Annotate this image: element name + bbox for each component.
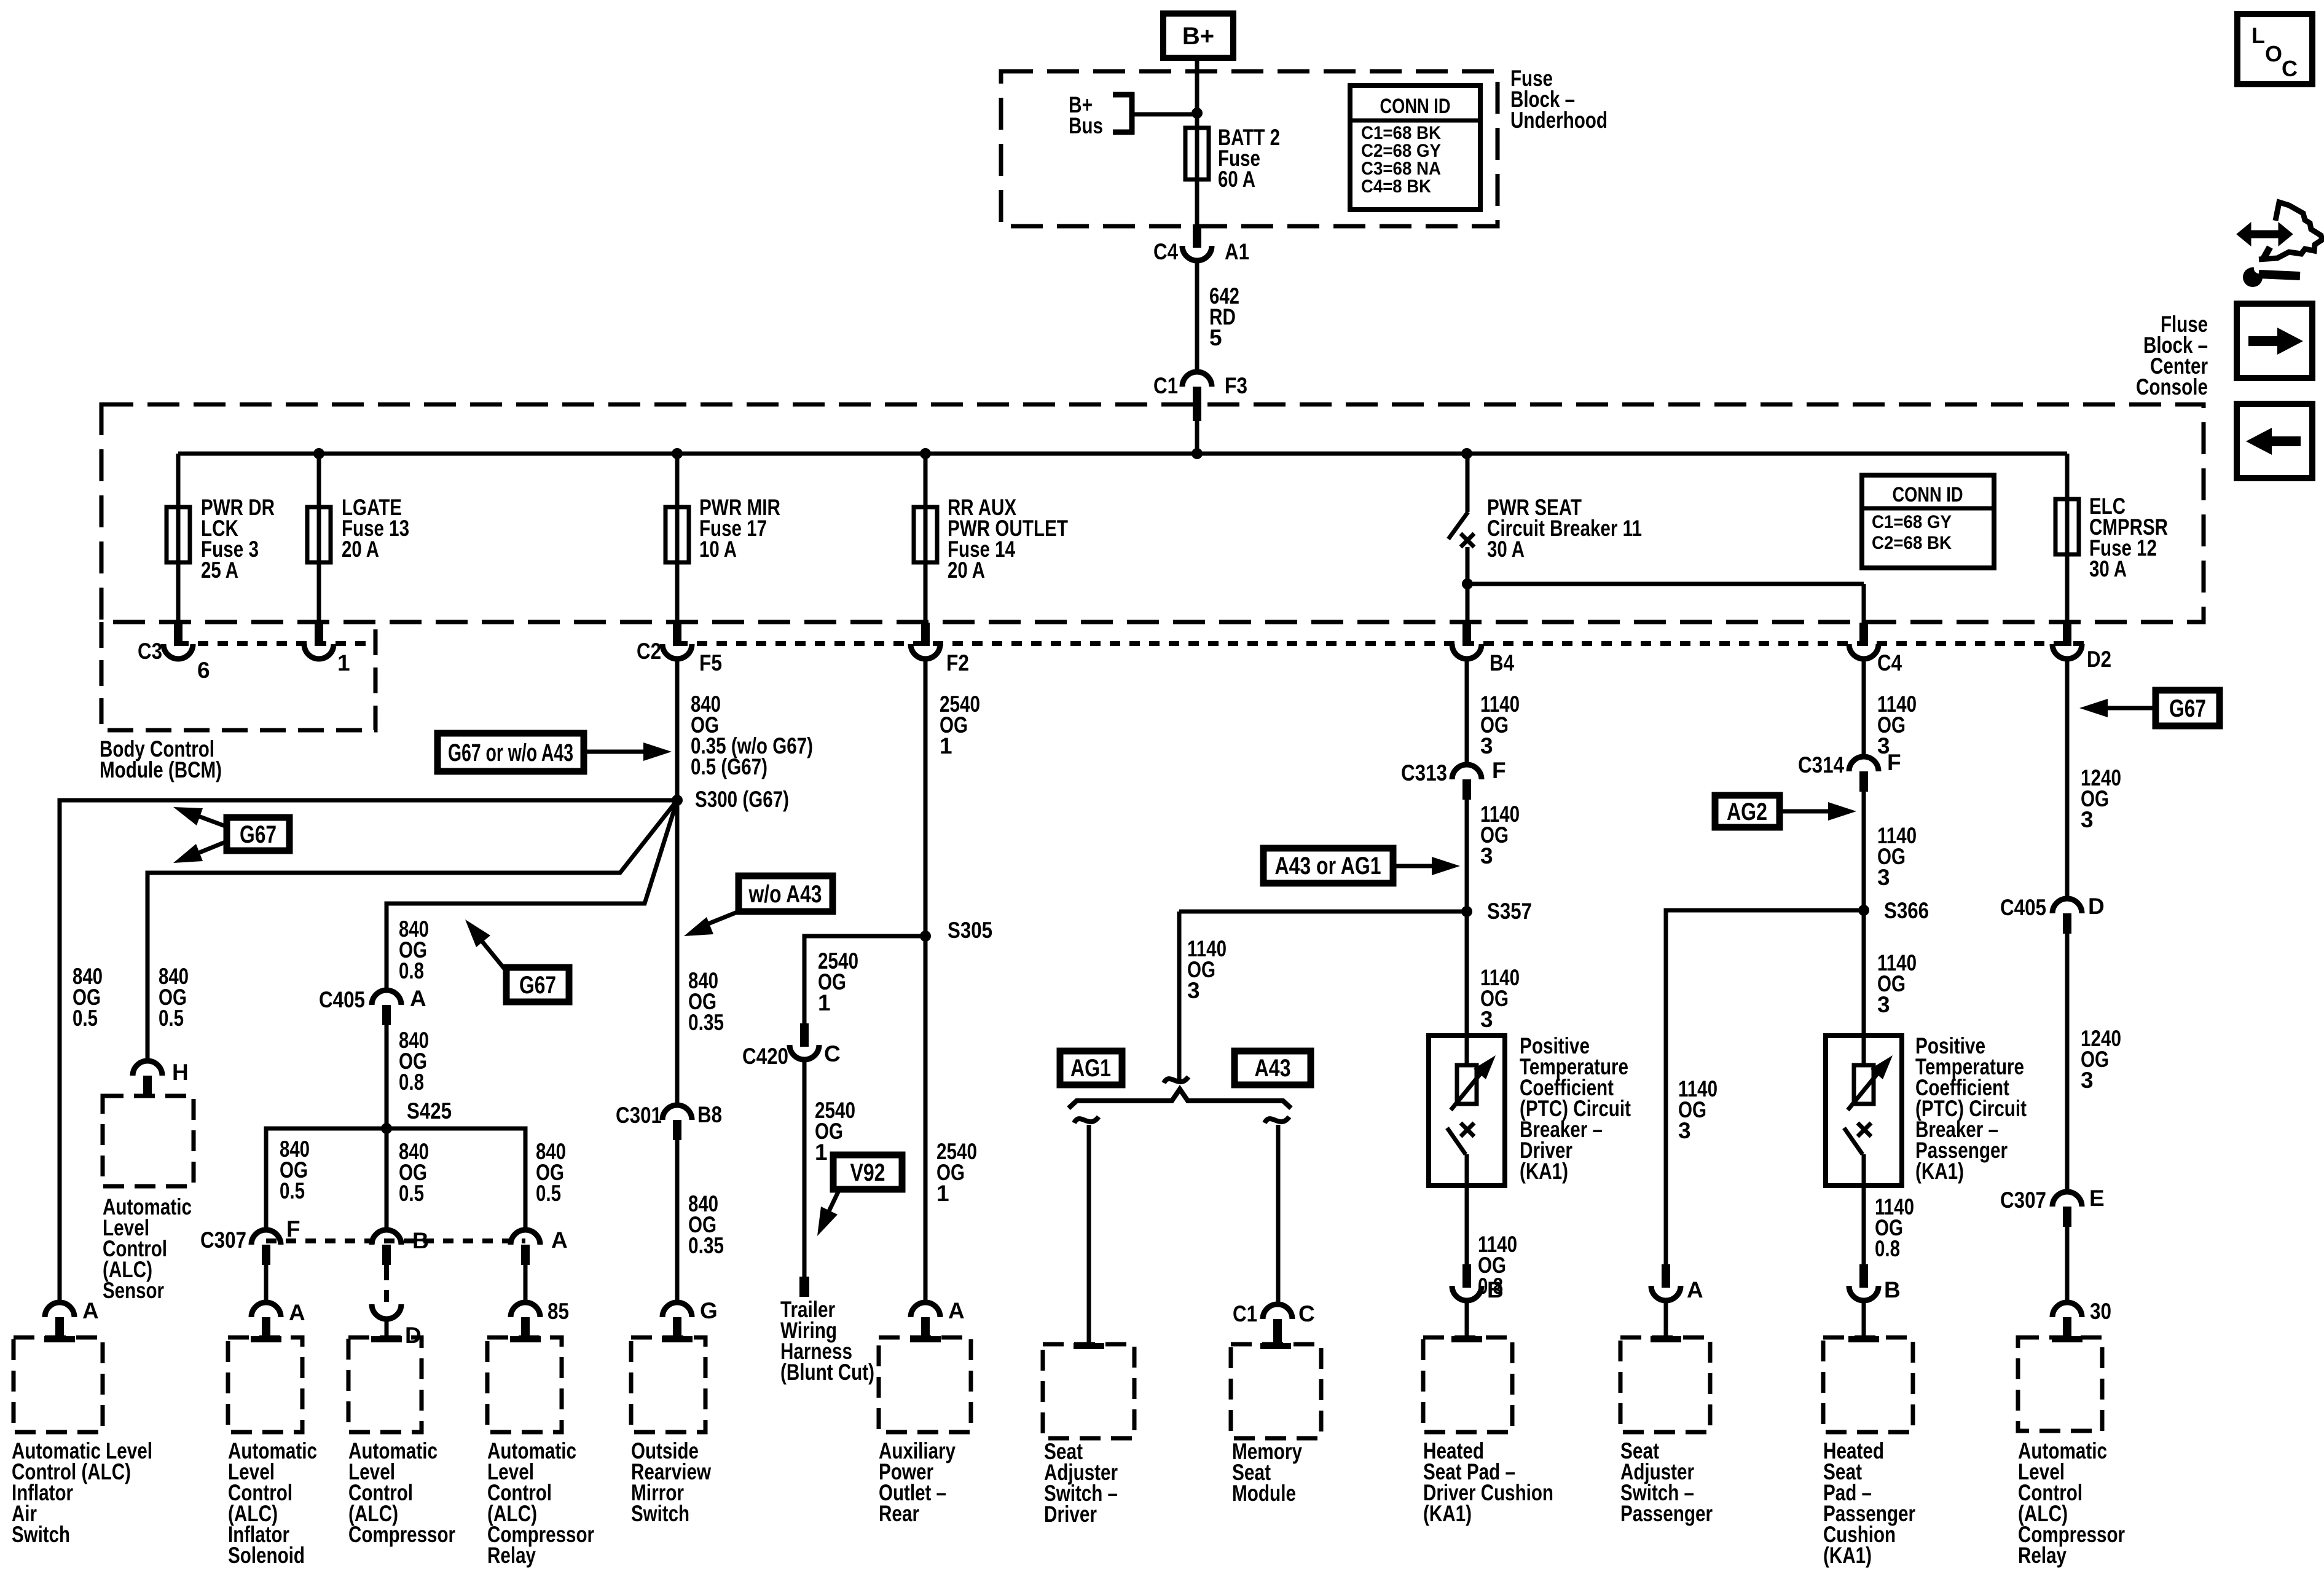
wire 840 OG 0.35 to mirror switch — [675, 1140, 680, 1302]
B+ Bus tap bracket — [1113, 92, 1134, 98]
fuse PWR DR LCK Fuse 3 — [167, 507, 190, 562]
svg-text:Module: Module — [1232, 1481, 1296, 1506]
wire C313 to S357 — [1465, 800, 1469, 1036]
svg-text:G67: G67 — [240, 821, 277, 848]
label 642 RD 5 — [1209, 283, 1239, 350]
component outside rearview mirror switch — [631, 1337, 705, 1432]
wire AG1 to seat adjuster switch driver — [1087, 1125, 1091, 1344]
component memory seat module — [1231, 1344, 1321, 1438]
wire - bus drop to RR AUX fuse — [924, 454, 928, 623]
wire PTC driver to heated seat pad — [1465, 1186, 1469, 1266]
svg-text:0.5: 0.5 — [280, 1178, 305, 1203]
node - bus junction at RR AUX fuse — [920, 448, 931, 459]
label Positive Temperature Coefficient PTC Circuit Breaker Passenger KA1 — [1915, 1033, 2027, 1184]
connector H — [133, 1061, 162, 1076]
connector C405 pin D — [2052, 899, 2082, 913]
svg-text:Module (BCM): Module (BCM) — [100, 757, 222, 782]
node - bus junction at LGATE fuse — [313, 448, 324, 459]
connector B4 — [1462, 623, 1471, 646]
wire 1140 OG to C313 — [1465, 660, 1469, 765]
component automatic level control compressor relay right — [2018, 1337, 2102, 1431]
svg-text:F5: F5 — [699, 650, 722, 675]
svg-text:CONN ID: CONN ID — [1893, 483, 1963, 506]
label box G67 with arrow up-left — [506, 967, 569, 1002]
svg-text:3: 3 — [1877, 865, 1890, 890]
svg-text:0.8: 0.8 — [399, 1069, 424, 1095]
wire - bus drop to PWR DR LCK fuse — [176, 454, 181, 623]
svg-text:Driver: Driver — [1044, 1502, 1097, 1527]
svg-text:3: 3 — [2081, 1068, 2094, 1093]
wire - S366 branch to seat adjuster passenger — [1666, 910, 1863, 1266]
connector C4 seat feed — [1859, 623, 1868, 646]
connector C313 pin F — [1452, 765, 1482, 779]
svg-text:3: 3 — [1480, 843, 1493, 868]
wire 642 RD 5 — [1195, 261, 1199, 372]
svg-text:F3: F3 — [1225, 373, 1247, 398]
component auxiliary power outlet rear — [879, 1337, 971, 1432]
svg-text:Underhood: Underhood — [1510, 108, 1608, 133]
label 2540 OG 1 upper — [940, 691, 980, 758]
connector D compressor — [372, 1304, 401, 1319]
svg-text:B: B — [412, 1228, 429, 1253]
label Seat Adjuster Switch Driver — [1044, 1439, 1118, 1527]
label 1140 OG 3 above C313 — [1480, 691, 1520, 758]
wire - connector row dotted line BCM section — [178, 641, 375, 646]
svg-text:Passenger: Passenger — [1620, 1501, 1713, 1526]
wire - main bus in center console fuse block — [178, 452, 2067, 456]
fuse LGATE Fuse 13 — [307, 507, 331, 562]
wire - S300 branch to S425 — [387, 800, 677, 990]
svg-text:0.5: 0.5 — [73, 1006, 98, 1031]
label 840 OG 0.35 to C301 — [688, 968, 724, 1035]
svg-text:A: A — [948, 1298, 965, 1323]
svg-text:C313: C313 — [1401, 760, 1447, 786]
svg-text:B: B — [1884, 1277, 1901, 1302]
node - bus junction at PWR MIR fuse — [672, 448, 683, 459]
svg-text:1: 1 — [936, 1181, 949, 1206]
component heated seat pad passenger cushion — [1823, 1337, 1913, 1432]
connector C1 pin C memory seat — [1263, 1304, 1292, 1319]
svg-text:3: 3 — [1480, 1007, 1493, 1032]
node S366 — [1858, 905, 1869, 916]
connector A inflator air switch — [45, 1302, 74, 1317]
connector 85 relay — [511, 1302, 540, 1317]
svg-text:0.5: 0.5 — [399, 1181, 424, 1206]
component seat adjuster switch driver — [1043, 1344, 1134, 1438]
label 840 OG 0.8 lower — [399, 1028, 429, 1095]
svg-text:AG1: AG1 — [1070, 1055, 1111, 1082]
connector B heated seat pad driver — [1462, 1264, 1471, 1288]
wire - feed into center console fuse block — [1195, 406, 1199, 454]
label Body Control Module (BCM) — [100, 736, 222, 782]
label box w/o A43 with arrow — [739, 876, 833, 912]
PTC circuit breaker driver KA1 — [1429, 1036, 1505, 1186]
label Auxiliary Power Outlet Rear — [879, 1438, 956, 1526]
svg-text:L: L — [2251, 23, 2265, 48]
svg-text:0.5 (G67): 0.5 (G67) — [691, 754, 767, 779]
CONN ID table center console — [1862, 475, 1994, 568]
svg-text:C420: C420 — [742, 1044, 788, 1069]
svg-text:10 A: 10 A — [699, 537, 737, 562]
wire squiggle A43 — [1265, 1117, 1289, 1123]
circuit breaker PWR SEAT Circuit Breaker 11 — [1466, 454, 1470, 512]
fuse PWR MIR Fuse 17 — [665, 507, 689, 562]
wire - S425 branch right to compressor relay — [387, 1128, 525, 1232]
label 1140 OG 3 brace — [1187, 936, 1227, 1003]
wire - S300 branch to ALC sensor — [147, 800, 677, 1061]
label Fluse Block - Center Console — [2136, 312, 2208, 400]
label box G67 right with arrow — [2156, 690, 2220, 726]
wire - S425 branch left to C307 F — [266, 1128, 387, 1232]
label ELC CMPRSR Fuse 12 30 A — [2089, 494, 2168, 581]
svg-text:6: 6 — [197, 658, 210, 683]
svg-text:F: F — [286, 1216, 300, 1242]
component automatic level control inflator solenoid — [228, 1337, 302, 1432]
wire PTC passenger to heated seat pad — [1862, 1186, 1866, 1266]
wire squiggle AG1 — [1074, 1117, 1099, 1123]
svg-text:30 A: 30 A — [2089, 556, 2127, 581]
connector C307 pin A — [511, 1230, 540, 1245]
wire - bus drop to ELC CMPRSR fuse — [2065, 454, 2070, 623]
svg-text:C307: C307 — [2000, 1187, 2046, 1213]
svg-text:F: F — [1492, 758, 1506, 783]
label Trailer Wiring Harness Blunt Cut — [780, 1297, 874, 1385]
wire - S357 branch to brace — [1179, 910, 1467, 914]
connector C420 pin C — [800, 1023, 809, 1047]
wire - bus drop to LGATE fuse — [317, 454, 321, 623]
wire 1140 OG to C314 — [1862, 660, 1866, 757]
svg-text:0.35: 0.35 — [688, 1010, 724, 1035]
svg-text:O: O — [2265, 41, 2282, 66]
node - bus junction at PWR SEAT breaker — [1461, 448, 1472, 459]
svg-text:D2: D2 — [2087, 647, 2111, 672]
label 1140 OG 3 above C314 — [1877, 691, 1917, 758]
node S357 — [1461, 906, 1472, 917]
wire - S300 branch left to ALC inflator air switch — [60, 800, 677, 1302]
wire squiggle above brace — [1164, 1077, 1188, 1083]
svg-text:A: A — [82, 1298, 99, 1323]
svg-text:B: B — [1487, 1277, 1504, 1302]
connector F2 — [921, 623, 930, 646]
label 1240 OG 3 upper — [2081, 765, 2121, 832]
PTC circuit breaker passenger KA1 — [1826, 1036, 1902, 1186]
svg-text:S357: S357 — [1487, 899, 1532, 924]
label box G67 or w/o A43 with arrow — [438, 733, 584, 771]
wire 2540 OG 1 blunt cut — [803, 1060, 807, 1277]
label 2540 OG 1 trailer upper — [818, 948, 858, 1015]
brace for AG1 A43 options — [1069, 1089, 1291, 1108]
svg-text:(Blunt Cut): (Blunt Cut) — [780, 1360, 874, 1385]
svg-text:1: 1 — [337, 650, 350, 675]
wire 1240 OG 3 to C307 E — [2065, 934, 2070, 1192]
svg-text:H: H — [172, 1060, 189, 1085]
connector C314 pin F — [1849, 757, 1878, 771]
svg-text:0.5: 0.5 — [536, 1181, 561, 1206]
node S300 — [672, 795, 683, 806]
wire - F to ALC inflator solenoid — [264, 1264, 269, 1302]
wire blunt cut end — [799, 1277, 809, 1297]
svg-text:Relay: Relay — [2018, 1543, 2067, 1568]
automatic level control sensor dashed box — [103, 1096, 194, 1186]
svg-text:B8: B8 — [697, 1102, 722, 1127]
node S305 — [920, 931, 931, 942]
label 840 OG 0.5 compressor — [399, 1139, 429, 1206]
label PWR SEAT Circuit Breaker 11 30 A — [1487, 495, 1642, 562]
svg-text:C3: C3 — [138, 639, 162, 664]
svg-text:C405: C405 — [2000, 895, 2046, 920]
connector C307 pin F — [251, 1230, 281, 1245]
connector C4 A1 — [1193, 224, 1201, 248]
wire - B+ feed down into underhood fuse block — [1195, 58, 1199, 226]
connector BCM pin 1 — [315, 623, 323, 646]
svg-text:Console: Console — [2136, 374, 2208, 400]
wire 840 OG to S300 — [675, 660, 680, 1105]
label 840 OG 0.8 upper — [399, 916, 429, 983]
connector C405 pin A — [372, 990, 401, 1005]
connector C1 F3 — [1182, 372, 1212, 387]
label Automatic Level Control (ALC) Sensor — [103, 1194, 192, 1303]
node - junction of B+ bus and BATT 2 fuse feed — [1191, 108, 1203, 119]
fuse block underhood dashed box — [1001, 71, 1498, 226]
svg-text:C4=8 BK: C4=8 BK — [1361, 176, 1431, 197]
label 1140 OG 3 above passenger PTC — [1877, 950, 1917, 1017]
label box A43 — [1235, 1051, 1311, 1085]
wire - breaker output to connector C4 — [1467, 582, 1864, 586]
svg-text:C314: C314 — [1798, 752, 1844, 778]
label PWR DR LCK Fuse 3 25 A — [201, 495, 275, 583]
label Heated Seat Pad Driver Cushion KA1 — [1423, 1438, 1553, 1526]
wire - connector row dotted line main section — [677, 641, 2084, 646]
wire A43 to memory seat module — [1276, 1125, 1281, 1304]
wire C314 to S366 — [1862, 792, 1866, 1036]
wire - down leg from S357 to brace — [1177, 912, 1182, 1083]
label 840 OG 0.35 to mirror switch — [688, 1191, 724, 1258]
svg-text:CONN ID: CONN ID — [1380, 95, 1451, 118]
label 1140 OG 3 above driver PTC — [1480, 965, 1520, 1032]
connector C307 pin E — [2052, 1192, 2082, 1207]
wire E to compressor relay 30 — [2065, 1226, 2070, 1302]
svg-text:A: A — [551, 1227, 568, 1253]
connector B heated seat pad passenger — [1859, 1264, 1868, 1288]
label Outside Rearview Mirror Switch — [631, 1438, 711, 1526]
svg-text:AG2: AG2 — [1727, 798, 1767, 825]
svg-text:(KA1): (KA1) — [1423, 1501, 1472, 1526]
label box AG2 with arrow — [1715, 795, 1780, 827]
svg-text:25 A: 25 A — [201, 557, 238, 583]
label 1140 OG 3 passenger adjuster — [1678, 1076, 1717, 1143]
label 1140 OG 3 below C314 — [1877, 823, 1917, 890]
svg-text:C301: C301 — [616, 1103, 662, 1128]
label box A43 or AG1 with arrow — [1263, 848, 1393, 883]
svg-text:Relay: Relay — [487, 1543, 536, 1568]
label BATT 2 Fuse 60 A — [1218, 125, 1280, 192]
svg-text:Switch: Switch — [631, 1501, 689, 1526]
svg-text:(KA1): (KA1) — [1520, 1159, 1568, 1184]
connector C301 pin B8 — [662, 1105, 692, 1120]
body control module BCM dashed box — [101, 622, 375, 730]
svg-text:V92: V92 — [850, 1159, 885, 1186]
label Positive Temperature Coefficient PTC Circuit Breaker Driver KA1 — [1520, 1033, 1631, 1184]
svg-text:S300 (G67): S300 (G67) — [695, 787, 789, 812]
svg-text:F2: F2 — [946, 650, 969, 675]
wire - A to ALC compressor relay — [524, 1264, 528, 1302]
svg-text:(KA1): (KA1) — [1915, 1159, 1964, 1184]
component automatic level control compressor relay left — [487, 1337, 562, 1432]
svg-text:G67: G67 — [2169, 695, 2206, 722]
label 840 OG 0.5 relay — [536, 1139, 566, 1206]
label 1140 OG 3 below C313 — [1480, 801, 1520, 868]
svg-text:5: 5 — [1209, 325, 1222, 350]
label Fuse Block - Underhood — [1510, 66, 1608, 133]
svg-text:G67 or w/o A43: G67 or w/o A43 — [448, 739, 573, 766]
label Heated Seat Pad Passenger Cushion KA1 — [1823, 1438, 1915, 1568]
svg-text:60 A: 60 A — [1218, 167, 1255, 192]
svg-text:1: 1 — [940, 733, 952, 758]
svg-text:Rear: Rear — [879, 1501, 919, 1526]
component automatic level control compressor — [348, 1337, 422, 1432]
fuse ELC CMPRSR Fuse 12 — [2055, 499, 2079, 554]
CONN ID table underhood — [1350, 85, 1480, 210]
svg-text:A: A — [410, 986, 426, 1011]
svg-text:0.8: 0.8 — [399, 958, 424, 983]
label LGATE Fuse 13 20 A — [342, 495, 409, 562]
svg-text:F: F — [1887, 750, 1901, 775]
svg-text:0.5: 0.5 — [159, 1006, 184, 1031]
svg-text:C4: C4 — [1877, 650, 1902, 675]
component heated seat pad driver cushion — [1423, 1337, 1512, 1432]
label 840 OG 0.35 w/o G67 0.5 G67 — [691, 691, 813, 779]
svg-text:C: C — [1298, 1301, 1315, 1326]
wire 1240 OG from D2 to C405 — [2065, 660, 2070, 899]
component automatic level control inflator air switch — [14, 1337, 103, 1432]
connector C307 pin B — [372, 1230, 401, 1245]
svg-text:(KA1): (KA1) — [1823, 1543, 1872, 1568]
connector A inflator solenoid — [251, 1302, 281, 1317]
label 1140 OG 0.8 driver — [1478, 1232, 1517, 1299]
svg-text:S366: S366 — [1884, 898, 1929, 923]
label Automatic Level Control ALC Compressor Relay right — [2018, 1438, 2125, 1568]
component seat adjuster switch passenger — [1620, 1337, 1710, 1432]
label box G67 with two arrows — [227, 817, 289, 851]
wire 2540 OG to S305 — [924, 660, 928, 1302]
svg-text:0.35: 0.35 — [688, 1233, 724, 1258]
label box V92 with arrow — [833, 1155, 902, 1189]
label PWR MIR Fuse 17 10 A — [699, 495, 780, 562]
svg-text:3: 3 — [2081, 807, 2094, 832]
svg-text:C: C — [2282, 56, 2298, 81]
label 1140 OG 0.8 passenger — [1875, 1194, 1914, 1261]
label 2540 OG 1 trailer lower — [815, 1098, 855, 1165]
label 2540 OG 1 outlet — [936, 1139, 977, 1206]
node - PWR SEAT breaker output junction — [1462, 578, 1473, 589]
svg-text:D: D — [2088, 894, 2105, 919]
label 840 OG 0.5 solenoid — [280, 1136, 310, 1203]
icon arrow next box — [2237, 304, 2312, 378]
svg-text:Compressor: Compressor — [348, 1522, 455, 1547]
label 840 OG 0.5 sensor — [159, 964, 189, 1031]
svg-text:A: A — [1687, 1277, 1703, 1302]
label RR AUX PWR OUTLET Fuse 14 20 A — [948, 495, 1068, 583]
svg-text:0.8: 0.8 — [1875, 1236, 1900, 1261]
node - bus junction at main feed — [1191, 448, 1203, 459]
wire - dashed option wire to compressor D — [384, 1264, 389, 1302]
svg-text:A43 or AG1: A43 or AG1 — [1275, 853, 1381, 880]
svg-text:C2: C2 — [637, 639, 661, 664]
label Automatic Level Control ALC Inflator Air Switch — [12, 1438, 152, 1547]
svg-text:3: 3 — [1480, 733, 1493, 758]
svg-text:A: A — [289, 1300, 305, 1325]
connector C2 pin F5 — [673, 623, 681, 646]
fuse RR AUX PWR OUTLET Fuse 14 — [914, 507, 937, 562]
svg-text:G: G — [700, 1298, 718, 1323]
label Memory Seat Module — [1232, 1439, 1302, 1506]
wire - bus drop to PWR MIR fuse — [675, 454, 680, 623]
svg-text:E: E — [2089, 1186, 2105, 1211]
svg-text:30: 30 — [2090, 1299, 2111, 1324]
connector A power outlet — [911, 1302, 940, 1317]
svg-text:B+: B+ — [1182, 23, 1214, 50]
svg-text:C1: C1 — [1233, 1301, 1257, 1326]
svg-text:20 A: 20 A — [948, 557, 985, 583]
svg-text:C405: C405 — [319, 987, 365, 1012]
label Seat Adjuster Switch Passenger — [1620, 1438, 1713, 1526]
svg-text:Solenoid: Solenoid — [228, 1543, 305, 1568]
svg-text:Bus: Bus — [1069, 113, 1103, 138]
wire - S305 branch to trailer harness — [804, 936, 925, 1025]
connector C3 pin 6 — [174, 623, 183, 646]
svg-text:3: 3 — [1678, 1118, 1691, 1143]
label 840 OG 0.5 air switch — [73, 964, 103, 1031]
wire - S425 down to compressor — [385, 1128, 389, 1232]
svg-text:w/o A43: w/o A43 — [748, 881, 822, 908]
svg-text:C4: C4 — [1153, 239, 1178, 264]
label 1240 OG 3 lower — [2081, 1026, 2121, 1093]
node S425 — [381, 1123, 392, 1134]
svg-text:C1: C1 — [1153, 373, 1178, 398]
svg-text:1: 1 — [818, 990, 831, 1015]
svg-text:C2=68 BK: C2=68 BK — [1872, 533, 1952, 553]
svg-text:30 A: 30 A — [1487, 537, 1525, 562]
label box AG1 — [1060, 1051, 1122, 1085]
label Automatic Level Control ALC Compressor — [348, 1438, 455, 1547]
label Automatic Level Control ALC Inflator Solenoid — [228, 1438, 317, 1568]
svg-text:G67: G67 — [519, 972, 556, 999]
svg-text:C1=68 GY: C1=68 GY — [1872, 512, 1952, 532]
svg-text:S425: S425 — [407, 1098, 452, 1124]
svg-text:A43: A43 — [1255, 1055, 1291, 1082]
connector A seat adjuster passenger — [1662, 1264, 1670, 1288]
svg-text:3: 3 — [1877, 992, 1890, 1017]
connector 30 compressor relay — [2052, 1302, 2082, 1317]
fuse block center console dashed box — [101, 404, 2204, 622]
svg-text:A1: A1 — [1225, 239, 1249, 264]
svg-text:85: 85 — [548, 1299, 569, 1324]
connector G mirror switch — [662, 1302, 692, 1317]
svg-text:Sensor: Sensor — [103, 1278, 164, 1303]
wire - C307 connector row dotted line — [266, 1238, 525, 1243]
icon vehicle with wrench — [2237, 222, 2293, 246]
connector D2 — [2063, 623, 2071, 646]
svg-text:1: 1 — [815, 1140, 828, 1165]
svg-text:20 A: 20 A — [342, 537, 379, 562]
icon LOC box — [2237, 14, 2312, 84]
svg-text:S305: S305 — [948, 918, 992, 943]
icon arrow previous box — [2237, 404, 2312, 478]
battery feed terminal B+ — [1163, 14, 1233, 58]
svg-text:C307: C307 — [200, 1227, 246, 1253]
wire 840 OG 0.8 to S425 — [385, 1025, 389, 1128]
fuse BATT 2 60A — [1185, 128, 1209, 179]
